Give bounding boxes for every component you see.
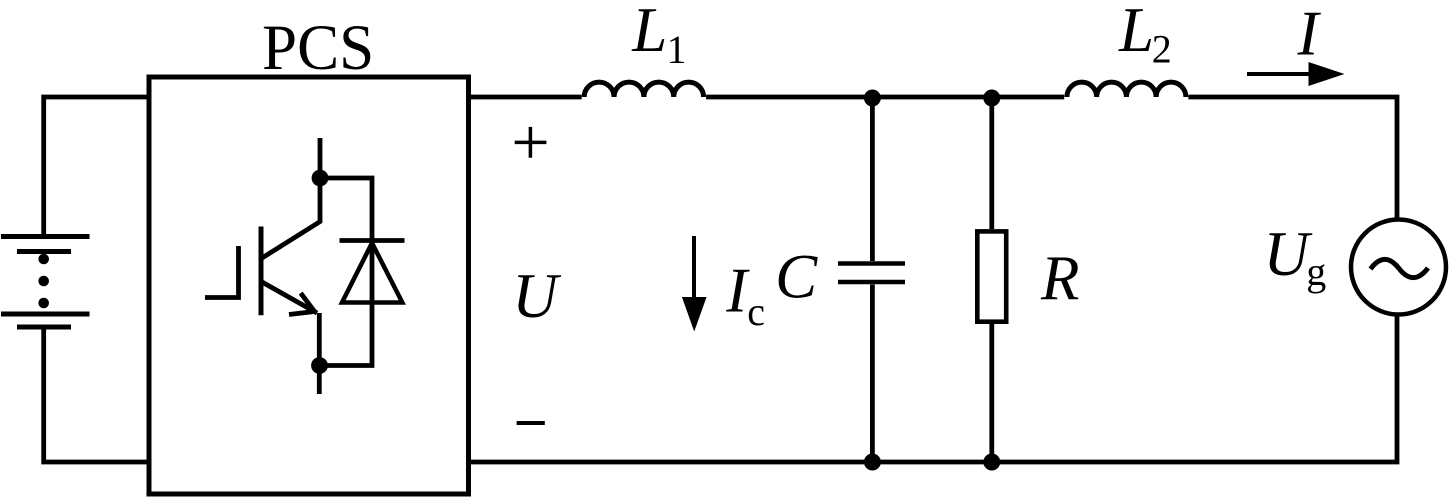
svg-text:c: c (747, 289, 765, 334)
svg-text:I: I (1297, 0, 1322, 69)
svg-text:C: C (775, 241, 818, 311)
svg-text:L: L (1118, 0, 1154, 65)
svg-text:PCS: PCS (262, 12, 374, 84)
svg-text:2: 2 (1152, 27, 1172, 72)
svg-text:U: U (1264, 219, 1313, 289)
svg-text:g: g (1306, 249, 1326, 294)
svg-text:L: L (631, 0, 667, 65)
svg-text:R: R (1040, 244, 1079, 314)
svg-text:1: 1 (667, 27, 687, 72)
svg-text:U: U (512, 261, 561, 331)
